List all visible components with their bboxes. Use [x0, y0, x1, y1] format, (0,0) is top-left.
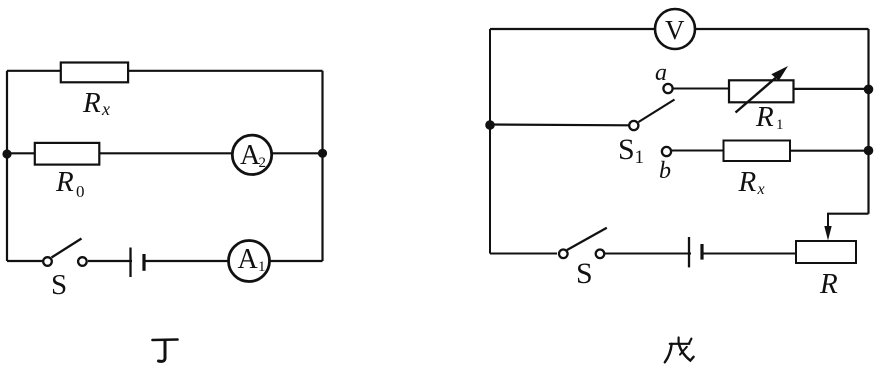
label Rx	[82, 87, 110, 119]
wire a to R1	[674, 88, 729, 90]
ammeter A1	[229, 241, 270, 282]
ammeter A2	[232, 135, 271, 174]
wire left vertical	[6, 71, 8, 261]
wire bottom	[7, 260, 323, 262]
rheostat R	[796, 241, 856, 263]
svg-text:R: R	[55, 166, 74, 198]
svg-text:R: R	[738, 166, 757, 198]
svg-text:R: R	[819, 268, 838, 300]
wire Rx to right	[790, 150, 869, 152]
label S2	[576, 257, 593, 290]
wire left vertical 2	[489, 29, 491, 254]
battery 2	[689, 237, 702, 267]
svg-text:R: R	[82, 87, 101, 119]
node left junction	[2, 149, 11, 158]
svg-text:2: 2	[259, 155, 267, 171]
svg-text:0: 0	[76, 182, 85, 201]
svg-text:R: R	[755, 101, 774, 133]
label S	[51, 269, 67, 301]
wire to S1	[490, 123, 629, 126]
svg-text:b: b	[659, 158, 671, 184]
caption wu character	[665, 338, 694, 363]
resistor Rx	[61, 63, 128, 83]
node a terminal	[663, 84, 672, 93]
svg-text:x: x	[757, 181, 765, 198]
battery	[131, 248, 145, 278]
svg-text:A: A	[238, 244, 259, 275]
label R	[819, 268, 838, 300]
node left junction 2	[485, 120, 495, 130]
switch S1	[629, 100, 674, 131]
node R1 right junction	[864, 85, 874, 95]
wire top	[7, 70, 323, 72]
node b terminal	[662, 147, 671, 156]
wire slider feed vertical	[827, 213, 829, 230]
svg-text:a: a	[655, 60, 667, 86]
resistor Rx right	[724, 141, 791, 162]
label R1	[755, 101, 784, 133]
slider arrow into R	[824, 226, 831, 241]
svg-text:x: x	[101, 99, 110, 119]
wire middle	[7, 152, 323, 154]
switch S	[43, 239, 88, 268]
wire bottom 2	[490, 253, 796, 255]
label a	[655, 60, 667, 86]
node right junction	[318, 149, 327, 158]
wire R1 to right	[794, 88, 869, 90]
svg-text:1: 1	[635, 147, 645, 168]
svg-text:1: 1	[258, 259, 266, 275]
svg-text:S: S	[51, 269, 67, 301]
svg-text:S: S	[576, 257, 593, 290]
svg-text:1: 1	[776, 117, 784, 133]
wire b to Rx	[672, 150, 724, 152]
wire right vertical	[321, 71, 323, 261]
svg-text:S: S	[618, 133, 635, 166]
node Rx right junction	[864, 146, 874, 156]
rheostat R1	[729, 66, 794, 113]
svg-text:V: V	[665, 15, 685, 45]
label S1	[618, 133, 644, 168]
wire top 2	[490, 28, 869, 30]
switch S2	[557, 228, 607, 259]
label R0	[55, 166, 85, 201]
wire slider feed horizontal	[828, 213, 869, 215]
voltmeter V	[655, 9, 695, 49]
wire right vertical 2	[867, 29, 869, 214]
resistor R0	[35, 143, 100, 165]
label Rx right	[738, 166, 765, 198]
label b	[659, 158, 671, 184]
caption ding character	[153, 340, 178, 362]
